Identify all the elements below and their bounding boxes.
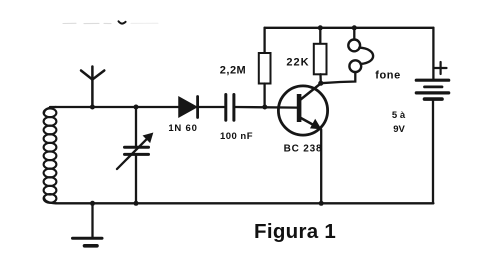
wire: capacitor to transistor base xyxy=(236,106,298,109)
svg-text:2,2M: 2,2M xyxy=(220,65,246,77)
variable capacitor CV xyxy=(135,107,137,146)
wire: bottom rail xyxy=(56,202,433,204)
capacitor C1 100nF xyxy=(224,95,227,121)
svg-text:5 à: 5 à xyxy=(392,110,406,121)
antenna xyxy=(81,67,104,108)
resistor R2 22K xyxy=(319,28,321,44)
svg-text:1N 60: 1N 60 xyxy=(168,123,197,134)
node: ground junction xyxy=(90,201,95,206)
node: R2 top junction xyxy=(318,25,323,30)
node: fone top junction xyxy=(352,25,357,30)
transistor Q1 BC238 xyxy=(278,86,327,135)
svg-text:100 nF: 100 nF xyxy=(220,131,253,142)
svg-text:22K: 22K xyxy=(286,57,309,69)
node: R1 bottom junction xyxy=(262,105,267,110)
node: var-cap top junction xyxy=(134,105,139,110)
svg-text:9V: 9V xyxy=(393,124,405,135)
scan smudge top xyxy=(63,21,158,23)
wire: emitter down xyxy=(320,130,322,204)
ground xyxy=(91,203,93,237)
wire: diode to capacitor xyxy=(199,106,224,108)
wire: coil bottom corner xyxy=(44,198,56,204)
wire: main top-left horizontal (coil to diode) xyxy=(50,106,179,108)
node: var-cap bottom junction xyxy=(134,201,139,206)
node: emitter bottom junction xyxy=(319,201,324,206)
node: antenna junction xyxy=(90,105,95,110)
battery B1 xyxy=(432,28,434,79)
fone (earphone) xyxy=(348,40,373,73)
svg-text:BC 238: BC 238 xyxy=(284,144,323,155)
wire: collector to fone xyxy=(321,72,356,83)
svg-text:fone: fone xyxy=(375,70,401,82)
node: collector junction xyxy=(318,81,323,86)
diode D1 1N60 xyxy=(179,97,197,116)
wire: fone top stem xyxy=(353,28,355,40)
resistor R1 2,2M xyxy=(263,28,265,53)
coil L1 xyxy=(44,108,57,202)
svg-text:Figura 1: Figura 1 xyxy=(254,220,336,243)
wire: coil top corner xyxy=(44,107,56,113)
wire: top rail xyxy=(265,27,434,29)
